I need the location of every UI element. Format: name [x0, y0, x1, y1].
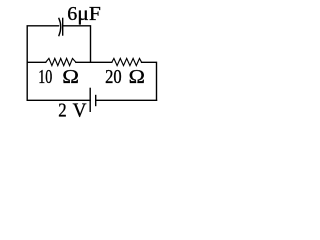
battery B1 short plate [95, 96, 97, 106]
wire middle-left [27, 61, 46, 63]
wire capacitor to node A [63, 26, 91, 63]
capacitor C1 straight plate [62, 18, 64, 35]
wire middle-right to right rail [142, 62, 157, 100]
svg-text:20: 20 [105, 66, 122, 88]
svg-text:10: 10 [38, 66, 52, 88]
svg-text:Ω: Ω [129, 66, 145, 88]
svg-text:6: 6 [67, 3, 77, 25]
svg-text:Ω: Ω [62, 66, 79, 88]
wire left rail bottom [27, 62, 90, 100]
wire middle-center [76, 61, 112, 63]
resistor R2 zigzag [112, 58, 142, 65]
capacitor C1 curved plate [59, 18, 61, 35]
svg-text:μF: μF [77, 3, 101, 25]
svg-text:2: 2 [58, 100, 66, 122]
battery B1 long plate [89, 88, 91, 111]
resistor R1 zigzag [46, 58, 76, 65]
wire top-left horizontal (to capacitor) [27, 26, 58, 63]
svg-text:V: V [73, 100, 87, 122]
wire battery to bottom-right [96, 99, 157, 101]
